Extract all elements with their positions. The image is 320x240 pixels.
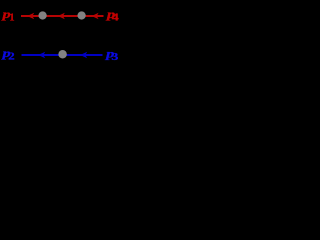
node dot bottom (center vertex) (58, 50, 67, 59)
arrowhead A on bottom line (points left) (38, 52, 45, 59)
arrowhead 2 on top line (points left) (58, 13, 65, 20)
wire bottom propagator line (22, 54, 103, 56)
arrowhead 1 on top line (points left) (27, 13, 34, 20)
wire top propagator line (21, 15, 104, 17)
svg-text:4: 4 (112, 13, 120, 24)
arrowhead B on bottom line (points left) (80, 52, 87, 59)
arrowhead 3 on top line (points left) (92, 13, 99, 20)
svg-text:3: 3 (111, 52, 118, 63)
node dot 2 (top right vertex) (77, 11, 85, 19)
node dot 1 (top left vertex) (38, 11, 46, 19)
svg-text:2: 2 (8, 52, 15, 63)
svg-text:1: 1 (9, 13, 14, 24)
